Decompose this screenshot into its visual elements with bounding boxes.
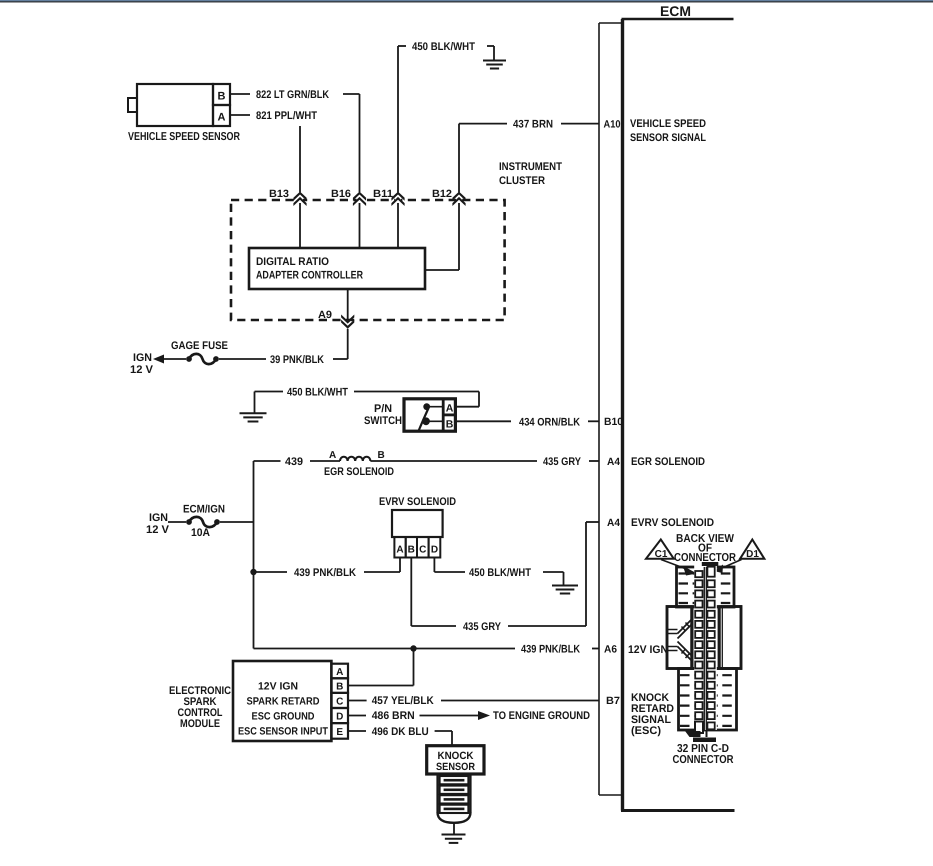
ign 12v source label left: [130, 352, 154, 376]
connector A9 chevron: [341, 315, 354, 329]
svg-text:D: D: [431, 545, 438, 556]
wire label 439: [285, 456, 303, 468]
svg-text:39 PNK/BLK: 39 PNK/BLK: [270, 354, 324, 366]
svg-text:P/N: P/N: [374, 403, 392, 415]
svg-text:B13: B13: [269, 188, 289, 200]
gage fuse: [186, 354, 219, 364]
svg-text:EVRV SOLENOID: EVRV SOLENOID: [379, 496, 456, 508]
ecm pin A4 egr: [607, 456, 620, 468]
svg-text:EVRV SOLENOID: EVRV SOLENOID: [631, 517, 714, 529]
wire 439 stub: [254, 460, 281, 462]
page top border bar: [0, 0, 933, 2]
ecm signal evrv solenoid: [631, 517, 714, 529]
EGR solenoid label: [324, 466, 394, 478]
svg-text:A6: A6: [604, 644, 617, 656]
esc module text rows: [238, 681, 328, 738]
svg-text:B: B: [218, 91, 226, 103]
wire B12 into DRAC right side: [425, 269, 459, 271]
connector A9 label: [318, 309, 332, 321]
wire 821 from VSS pin A: [230, 114, 250, 116]
ground for 450 BLK/WHT top: [483, 46, 506, 69]
connector B11 chevron: [391, 192, 404, 206]
wire 439 PNK/BLK branch stub: [254, 571, 288, 573]
svg-text:12V IGN: 12V IGN: [258, 681, 298, 693]
connector spine lines: [704, 567, 706, 730]
svg-text:(ESC): (ESC): [631, 725, 661, 737]
svg-text:A9: A9: [318, 309, 332, 321]
ign 12v source label 2: [146, 512, 170, 536]
esc module box: [233, 661, 331, 741]
instrument cluster label: [499, 161, 562, 187]
wire 821 to B13: [299, 126, 301, 248]
knock sensor thread slots: [440, 776, 469, 813]
svg-text:822 LT GRN/BLK: 822 LT GRN/BLK: [256, 89, 329, 101]
wire 822 from VSS pin B: [230, 93, 250, 95]
svg-text:B11: B11: [373, 188, 393, 200]
connector B11 label: [373, 188, 393, 200]
connector feet: [685, 730, 716, 742]
ecm signal egr solenoid: [631, 456, 705, 468]
wire label 450 BLK/WHT top: [412, 41, 475, 53]
svg-text:486 BRN: 486 BRN: [372, 710, 415, 722]
svg-text:IGN: IGN: [149, 512, 168, 524]
svg-text:E: E: [336, 727, 343, 738]
wire 496 to knock sensor: [435, 731, 452, 746]
wire label 437 BRN: [513, 119, 553, 131]
wire 435 GRY to ECM A4: [589, 460, 599, 462]
wire 450 BLK/WHT top stub: [398, 46, 406, 248]
connector top tab: [702, 562, 719, 566]
svg-text:B10: B10: [604, 416, 623, 428]
svg-text:12 V: 12 V: [146, 524, 170, 536]
svg-text:GAGE FUSE: GAGE FUSE: [171, 340, 228, 352]
wire 434 from switch B: [455, 420, 511, 422]
wire label 434 ORN/BLK: [519, 416, 580, 428]
svg-text:A: A: [336, 667, 343, 678]
wire label 450 BLK/WHT evrv: [469, 567, 531, 579]
vehicle speed sensor pin B: [213, 84, 230, 105]
wire 822 to B16: [343, 94, 360, 248]
connector B13 label: [269, 188, 289, 200]
wire 486 to engine ground arrow: [420, 711, 491, 720]
connector middle section: [667, 607, 741, 669]
esc pin A: [331, 664, 348, 679]
connector B16 label: [331, 188, 351, 200]
svg-text:A4: A4: [607, 517, 620, 529]
wire esc D stub: [348, 715, 366, 717]
svg-text:435 GRY: 435 GRY: [543, 456, 582, 468]
svg-text:CONNECTOR: CONNECTOR: [673, 754, 735, 766]
svg-text:ADAPTER CONTROLLER: ADAPTER CONTROLLER: [256, 270, 363, 282]
connector B16 chevron: [353, 192, 366, 206]
svg-text:A10: A10: [604, 119, 621, 131]
wire fuse to trunk: [220, 521, 254, 523]
wire 439 to EVRV A: [364, 558, 400, 573]
wire 439 to EGR coil: [310, 460, 340, 462]
wire trunk vertical: [253, 461, 255, 649]
wire label 450 BLK/WHT mid: [287, 387, 348, 399]
instrument cluster dashed boundary: [231, 200, 505, 320]
EVRV pin B: [406, 537, 417, 558]
svg-text:A: A: [218, 112, 226, 124]
svg-text:ESC GROUND: ESC GROUND: [252, 711, 315, 723]
ecm signal 12v ign: [628, 644, 668, 656]
ground for EVRV 450: [543, 572, 578, 594]
p/n switch pin A label: [446, 403, 454, 415]
svg-text:435 GRY: 435 GRY: [463, 621, 502, 633]
wire label 457 YEL/BLK: [372, 695, 434, 707]
svg-text:457 YEL/BLK: 457 YEL/BLK: [372, 695, 434, 707]
svg-text:12 V: 12 V: [130, 364, 154, 376]
svg-text:B: B: [336, 682, 343, 693]
wire EVRV B down: [411, 558, 456, 627]
svg-text:INSTRUMENT: INSTRUMENT: [499, 161, 562, 173]
svg-text:450 BLK/WHT: 450 BLK/WHT: [469, 567, 531, 579]
wire esc E stub: [348, 730, 366, 732]
p/n switch pin B label: [446, 419, 454, 431]
wire EGR to 435 GRY: [370, 460, 537, 462]
wire label 496 DK BLU: [372, 726, 429, 738]
connector bottom section: [679, 669, 737, 731]
svg-text:B: B: [408, 545, 415, 556]
svg-text:B: B: [446, 419, 454, 431]
svg-text:IGN: IGN: [133, 352, 152, 364]
wire label 821 PPL/WHT: [256, 110, 317, 122]
ecm signal vehicle speed sensor signal: [630, 118, 706, 144]
connector bottom left tab pin: [695, 722, 703, 734]
ecm pin B10: [604, 416, 623, 428]
ecm/ign fuse: [186, 517, 220, 527]
svg-text:439 PNK/BLK: 439 PNK/BLK: [521, 644, 580, 656]
wire 437 BRN to ECM A10: [561, 123, 599, 125]
back view of connector label: [674, 533, 737, 564]
knock sensor dome: [438, 812, 471, 823]
ecm box outline: [621, 19, 735, 811]
EVRV solenoid label: [379, 496, 456, 508]
wire 437 BRN horizontal: [459, 123, 507, 125]
wire label 439 PNK/BLK bottom: [521, 644, 580, 656]
wire esc B to junction: [348, 649, 414, 686]
vehicle speed sensor body: [128, 84, 213, 126]
wire 437 BRN down to B12: [458, 124, 460, 270]
svg-text:ESC SENSOR INPUT: ESC SENSOR INPUT: [238, 726, 328, 738]
junction dot bottom 439: [410, 645, 416, 651]
svg-text:439 PNK/BLK: 439 PNK/BLK: [294, 567, 356, 579]
knock sensor ground: [442, 823, 466, 843]
vehicle speed sensor label: [128, 131, 241, 143]
connector pin squares: [695, 567, 715, 730]
svg-text:C1: C1: [655, 549, 668, 560]
wire fuse to 39 PNK/BLK: [219, 358, 266, 360]
svg-text:D: D: [336, 712, 343, 723]
esc pin E: [331, 723, 348, 739]
ecm signal knock retard: [631, 692, 674, 737]
svg-text:TO ENGINE GROUND: TO ENGINE GROUND: [493, 710, 590, 722]
ecm pin B7: [606, 695, 620, 707]
C1 leader arrow: [661, 560, 697, 576]
gage fuse label: [171, 340, 228, 352]
svg-text:VEHICLE SPEED SENSOR: VEHICLE SPEED SENSOR: [128, 131, 241, 143]
svg-text:CLUSTER: CLUSTER: [499, 175, 545, 187]
connector B12 chevron: [452, 192, 465, 206]
svg-text:A: A: [396, 545, 403, 556]
C1 triangle: [646, 540, 674, 561]
svg-text:B7: B7: [606, 695, 620, 707]
svg-text:450 BLK/WHT: 450 BLK/WHT: [412, 41, 475, 53]
svg-text:821 PPL/WHT: 821 PPL/WHT: [256, 110, 317, 122]
svg-text:437 BRN: 437 BRN: [513, 119, 553, 131]
svg-text:SENSOR: SENSOR: [436, 761, 475, 773]
wire 434 to ECM B10: [588, 420, 599, 422]
svg-text:12V IGN: 12V IGN: [628, 644, 668, 656]
electronic spark control module label: [169, 685, 231, 730]
svg-text:C: C: [419, 545, 426, 556]
p/n switch contacts: [419, 403, 444, 431]
svg-text:VEHICLE SPEED: VEHICLE SPEED: [630, 118, 706, 130]
esc pin B: [331, 678, 348, 693]
wire label 39 PNK/BLK: [270, 354, 324, 366]
vehicle speed sensor pin A: [213, 105, 230, 126]
connector mid strip boundary: [693, 607, 719, 669]
svg-text:A4: A4: [607, 456, 620, 468]
wire DRAC output to A9: [347, 289, 349, 359]
arrow to IGN 12V: [153, 355, 186, 364]
EVRV pin A: [394, 537, 405, 558]
svg-text:D1: D1: [746, 549, 759, 560]
wire label 486 BRN: [372, 710, 415, 722]
knock sensor box: [427, 746, 484, 774]
ecm pin A6: [604, 644, 617, 656]
ecm/ign fuse label: [183, 504, 225, 516]
svg-text:10A: 10A: [191, 527, 210, 539]
p/n switch box: [404, 399, 455, 431]
svg-text:SPARK RETARD: SPARK RETARD: [247, 696, 320, 708]
wire EVRV D to 450: [434, 558, 465, 573]
wire label 439 PNK/BLK: [294, 567, 356, 579]
EVRV pin C: [417, 537, 429, 558]
EGR solenoid coil: [340, 457, 370, 461]
svg-text:450 BLK/WHT: 450 BLK/WHT: [287, 387, 348, 399]
svg-text:A: A: [446, 403, 454, 415]
connector harness chevron wires: [668, 619, 692, 661]
EVRV solenoid body: [392, 510, 443, 537]
svg-text:EGR SOLENOID: EGR SOLENOID: [631, 456, 705, 468]
esc pin C: [331, 693, 348, 708]
connector B12 label: [432, 188, 452, 200]
svg-text:C: C: [336, 697, 343, 708]
ecm label: [660, 3, 691, 19]
ground for 450 BLK/WHT mid: [240, 392, 267, 422]
ecm pin A10: [604, 119, 621, 131]
EGR terminal A label: [329, 450, 336, 461]
wire 450 to P/N switch A: [354, 392, 479, 407]
knock sensor body: [438, 774, 471, 812]
svg-text:B12: B12: [432, 188, 452, 200]
EVRV pin D: [429, 537, 441, 558]
svg-text:SWITCH: SWITCH: [364, 415, 402, 427]
D1 leader arrow: [714, 560, 742, 574]
svg-text:434 ORN/BLK: 434 ORN/BLK: [519, 416, 580, 428]
EGR terminal B label: [378, 450, 385, 461]
svg-text:ECM/IGN: ECM/IGN: [183, 504, 225, 516]
ecm pin A4 evrv: [607, 517, 620, 529]
D1 triangle: [740, 540, 764, 561]
p/n switch label: [364, 403, 402, 427]
wire ign to fuse: [168, 521, 186, 523]
junction dot on trunk 439: [250, 569, 256, 575]
wire 439 to ECM A6: [592, 648, 599, 650]
wire 450 mid stub: [255, 391, 284, 393]
digital ratio adapter controller box: [249, 248, 425, 289]
svg-text:EGR SOLENOID: EGR SOLENOID: [324, 466, 394, 478]
wire 435 GRY to ECM A4 evrv: [508, 522, 599, 626]
wire 457 to ECM B7: [441, 700, 599, 702]
wire esc C stub: [348, 700, 367, 702]
wire label 435 GRY: [543, 456, 582, 468]
to engine ground label: [493, 710, 590, 722]
connector B13 chevron: [293, 192, 306, 206]
wire label 822 LT GRN/BLK: [256, 89, 329, 101]
svg-text:SENSOR SIGNAL: SENSOR SIGNAL: [630, 132, 706, 144]
wire bottom 439 row: [254, 648, 516, 650]
svg-text:439: 439: [285, 456, 303, 468]
svg-text:MODULE: MODULE: [180, 718, 220, 730]
svg-text:A: A: [329, 450, 336, 461]
wire 39 PNK/BLK to A9: [333, 358, 348, 360]
esc pin D: [331, 708, 348, 723]
connector top section: [677, 567, 735, 607]
svg-text:B16: B16: [331, 188, 351, 200]
svg-text:DIGITAL RATIO: DIGITAL RATIO: [256, 256, 329, 268]
wire label 435 GRY evrv: [463, 621, 502, 633]
svg-text:496 DK BLU: 496 DK BLU: [372, 726, 429, 738]
connector center pin strip: [694, 562, 717, 730]
ecm connector face line: [599, 23, 622, 795]
32 pin c-d connector label: [673, 743, 735, 766]
svg-text:B: B: [378, 450, 385, 461]
fuse rating 10A: [191, 527, 210, 539]
svg-text:ECM: ECM: [660, 3, 691, 19]
